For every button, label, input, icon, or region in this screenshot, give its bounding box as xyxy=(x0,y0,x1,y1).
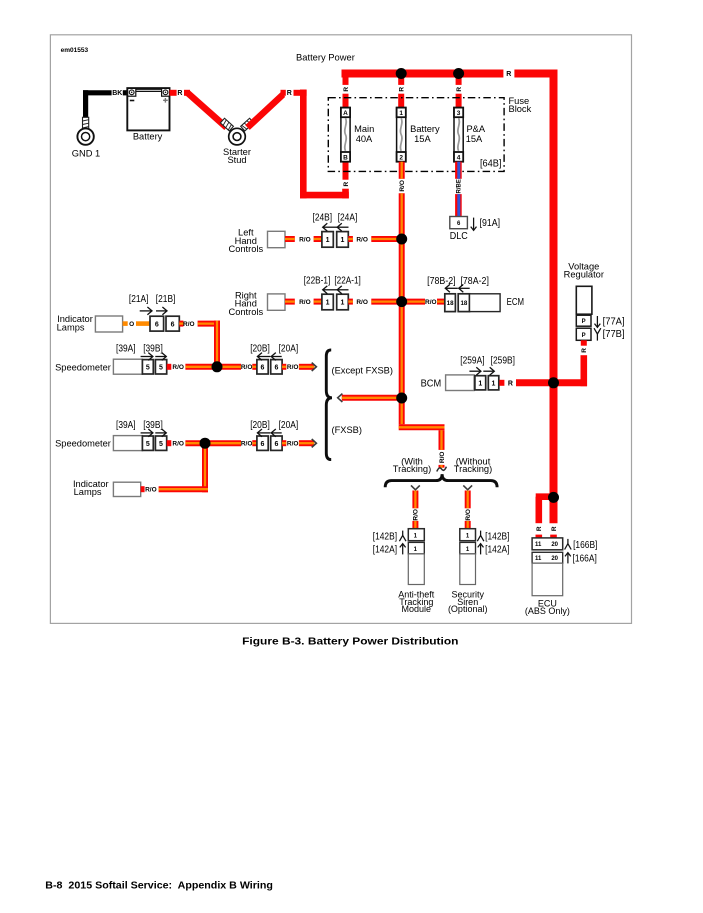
svg-text:R/O: R/O xyxy=(439,452,446,464)
svg-text:Lamps: Lamps xyxy=(57,322,85,332)
svg-text:R/O: R/O xyxy=(413,509,420,521)
svg-text:[22A-1]: [22A-1] xyxy=(334,275,361,286)
svg-text:R/O: R/O xyxy=(299,299,311,306)
svg-text:15A: 15A xyxy=(414,134,431,144)
svg-text:[77A]: [77A] xyxy=(603,317,625,328)
svg-text:Regulator: Regulator xyxy=(564,270,604,280)
svg-text:[21B]: [21B] xyxy=(156,294,176,305)
svg-text:[142B]: [142B] xyxy=(485,532,509,543)
svg-text:ECM: ECM xyxy=(507,297,524,308)
svg-text:R/O: R/O xyxy=(172,364,184,371)
svg-text:Block: Block xyxy=(509,104,532,114)
svg-text:R/O: R/O xyxy=(399,180,406,192)
svg-text:Battery: Battery xyxy=(133,132,163,142)
svg-text:R/BE: R/BE xyxy=(457,179,463,193)
svg-text:P: P xyxy=(582,333,586,339)
svg-text:6: 6 xyxy=(171,321,175,328)
svg-text:[78B-2]: [78B-2] xyxy=(427,276,456,287)
svg-text:R: R xyxy=(506,71,511,78)
svg-text:P: P xyxy=(582,319,586,325)
svg-text:[142A]: [142A] xyxy=(373,545,397,556)
svg-text:Controls: Controls xyxy=(228,307,263,317)
svg-text:5: 5 xyxy=(159,441,163,448)
svg-text:[20B]: [20B] xyxy=(250,343,270,354)
svg-text:3: 3 xyxy=(457,110,461,117)
svg-text:1: 1 xyxy=(326,300,330,307)
svg-text:Battery Power: Battery Power xyxy=(296,51,355,62)
svg-text:5: 5 xyxy=(159,365,163,372)
svg-text:R: R xyxy=(551,526,558,531)
svg-text:R: R xyxy=(508,380,513,387)
svg-text:R/O: R/O xyxy=(145,487,157,494)
svg-text:Controls: Controls xyxy=(228,244,263,254)
svg-text:4: 4 xyxy=(457,154,461,161)
svg-text:15A: 15A xyxy=(466,134,483,144)
svg-text:BK: BK xyxy=(112,90,122,97)
svg-text:5: 5 xyxy=(146,441,150,448)
svg-text:R/O: R/O xyxy=(299,236,311,243)
svg-text:[64B]: [64B] xyxy=(480,158,502,169)
svg-text:20: 20 xyxy=(551,542,558,548)
svg-text:1: 1 xyxy=(492,380,496,387)
svg-text:R/O: R/O xyxy=(183,321,195,328)
svg-text:1: 1 xyxy=(341,300,345,307)
svg-text:GND 1: GND 1 xyxy=(72,148,100,158)
svg-text:R/O: R/O xyxy=(241,441,253,448)
svg-text:[20A]: [20A] xyxy=(279,343,299,354)
svg-text:R: R xyxy=(398,87,405,92)
svg-text:[142A]: [142A] xyxy=(485,545,509,556)
svg-text:Module: Module xyxy=(402,604,432,614)
svg-text:Main: Main xyxy=(354,124,374,134)
svg-text:[39A]: [39A] xyxy=(116,420,136,431)
svg-text:1: 1 xyxy=(341,237,345,244)
svg-text:6: 6 xyxy=(261,365,265,372)
svg-text:em01553: em01553 xyxy=(61,47,89,54)
svg-text:Stud: Stud xyxy=(227,155,246,165)
svg-text:Lamps: Lamps xyxy=(74,487,102,497)
svg-text:[21A]: [21A] xyxy=(129,294,149,305)
svg-text:Speedometer: Speedometer xyxy=(55,362,111,372)
svg-text:[39B]: [39B] xyxy=(143,420,163,431)
svg-text:R/O: R/O xyxy=(287,364,299,371)
svg-text:11: 11 xyxy=(535,542,542,548)
svg-text:[22B-1]: [22B-1] xyxy=(304,275,331,286)
svg-text:R: R xyxy=(287,90,292,97)
svg-text:40A: 40A xyxy=(356,134,373,144)
svg-text:20: 20 xyxy=(551,556,558,562)
svg-text:18: 18 xyxy=(447,300,454,307)
svg-text:[20B]: [20B] xyxy=(250,420,270,431)
svg-text:18: 18 xyxy=(460,300,467,307)
svg-text:6: 6 xyxy=(274,365,278,372)
svg-text:1: 1 xyxy=(326,237,330,244)
svg-text:R/O: R/O xyxy=(287,441,299,448)
svg-text:[24A]: [24A] xyxy=(338,212,358,223)
svg-text:R: R xyxy=(343,87,350,92)
svg-text:[39B]: [39B] xyxy=(143,343,163,354)
svg-text:(Optional): (Optional) xyxy=(448,604,488,614)
svg-text:[166B]: [166B] xyxy=(573,540,597,551)
svg-text:Tracking): Tracking) xyxy=(454,464,492,474)
svg-text:Speedometer: Speedometer xyxy=(55,439,111,449)
svg-text:11: 11 xyxy=(535,556,542,562)
svg-text:R: R xyxy=(343,182,350,187)
svg-text:O: O xyxy=(129,321,134,328)
svg-text:6: 6 xyxy=(261,441,265,448)
svg-text:(FXSB): (FXSB) xyxy=(332,425,362,435)
svg-text:R: R xyxy=(456,87,463,92)
svg-text:[39A]: [39A] xyxy=(116,343,136,354)
svg-text:BCM: BCM xyxy=(421,378,442,389)
svg-text:R: R xyxy=(536,526,543,531)
svg-text:R/O: R/O xyxy=(356,299,368,306)
svg-text:[259B]: [259B] xyxy=(491,356,515,367)
svg-text:6: 6 xyxy=(155,321,159,328)
svg-text:(ABS Only): (ABS Only) xyxy=(525,606,570,616)
svg-text:[24B]: [24B] xyxy=(313,212,333,223)
svg-text:6: 6 xyxy=(274,441,278,448)
svg-text:[78A-2]: [78A-2] xyxy=(460,276,489,287)
svg-text:[91A]: [91A] xyxy=(480,218,501,229)
svg-text:[166A]: [166A] xyxy=(573,554,597,565)
svg-text:DLC: DLC xyxy=(450,231,468,242)
svg-text:R/O: R/O xyxy=(465,509,472,521)
svg-text:(Except FXSB): (Except FXSB) xyxy=(332,366,393,376)
svg-text:R/O: R/O xyxy=(425,299,437,306)
svg-text:R/O: R/O xyxy=(241,364,253,371)
svg-text:[20A]: [20A] xyxy=(279,420,299,431)
svg-text:5: 5 xyxy=(146,365,150,372)
svg-text:1: 1 xyxy=(399,110,403,117)
svg-text:Battery: Battery xyxy=(410,124,440,134)
svg-text:A: A xyxy=(343,110,348,117)
svg-text:Figure B-3. Battery Power Dist: Figure B-3. Battery Power Distribution xyxy=(242,637,458,648)
svg-text:Tracking): Tracking) xyxy=(393,464,431,474)
svg-text:R/O: R/O xyxy=(172,441,184,448)
svg-text:R/O: R/O xyxy=(356,236,368,243)
svg-text:[259A]: [259A] xyxy=(460,356,484,367)
svg-text:[142B]: [142B] xyxy=(373,532,397,543)
svg-text:R: R xyxy=(177,90,182,97)
svg-text:R: R xyxy=(581,348,588,353)
svg-text:2: 2 xyxy=(399,154,403,161)
svg-text:[77B]: [77B] xyxy=(603,329,625,340)
svg-text:B-8 2015 Softail Service: Ap: B-8 2015 Softail Service: Appendix B Wir… xyxy=(45,880,273,891)
svg-text:P&A: P&A xyxy=(466,124,485,134)
svg-text:B: B xyxy=(343,154,348,161)
svg-text:1: 1 xyxy=(478,380,482,387)
